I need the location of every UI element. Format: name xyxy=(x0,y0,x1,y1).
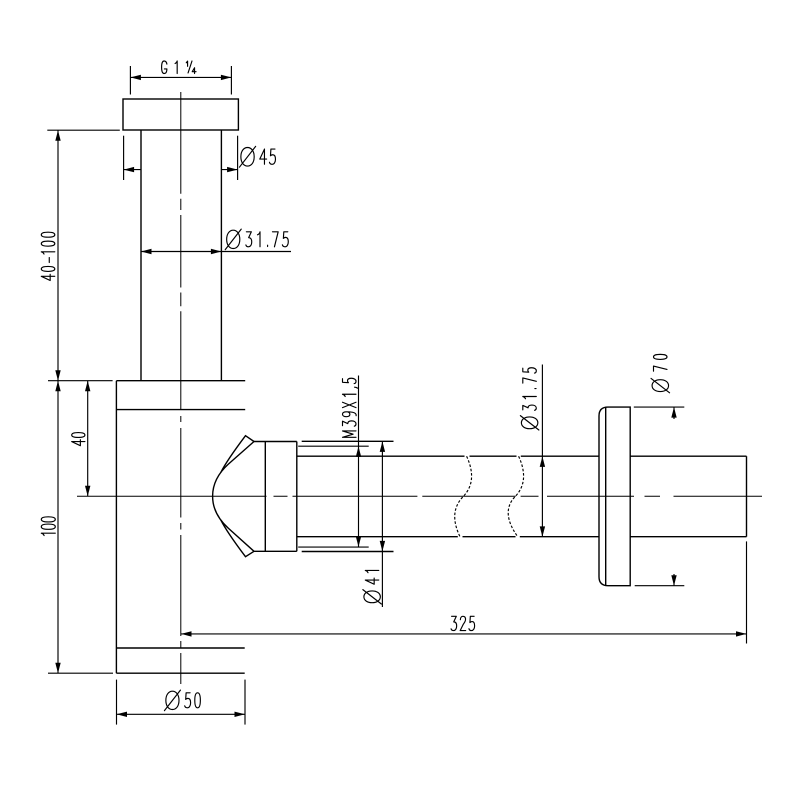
dim 100: label xyxy=(41,517,55,536)
compression nut bottom edge xyxy=(254,550,297,552)
dim D70: arrow stubs xyxy=(673,407,675,419)
dim D31.75 outlet: label xyxy=(520,368,539,430)
vertical center axis of body xyxy=(180,92,182,684)
body top edge xyxy=(116,380,245,382)
dim 325: arrowheads xyxy=(181,631,192,636)
dim 40-100: top tick xyxy=(47,129,120,131)
dim G1 1/4: arrowheads xyxy=(130,75,141,80)
outlet cone xyxy=(213,442,254,552)
escutcheon dome tangent line xyxy=(605,407,607,585)
body top ring line xyxy=(116,409,245,411)
dim D50: extension lines xyxy=(116,680,118,725)
cone top petal xyxy=(221,436,254,473)
dim 100: mid tick xyxy=(48,380,113,382)
dim 325: right extension line xyxy=(746,541,748,643)
dim 40: arrowheads xyxy=(85,381,90,392)
top flange (G thread cap) xyxy=(123,99,238,130)
dim D31.75 inlet: arrowheads xyxy=(141,249,152,254)
dim D45: dimension line stubs xyxy=(124,169,141,171)
dim 40-100: dimension line xyxy=(57,130,59,381)
dim 40: label xyxy=(72,433,85,446)
pipe break squiggle right xyxy=(508,456,523,537)
dim 325: label xyxy=(451,616,475,630)
dim 325: dimension line xyxy=(181,633,747,635)
dim D41: label xyxy=(363,570,382,604)
dim 40: dimension line xyxy=(87,381,89,497)
trap body left wall xyxy=(115,381,117,674)
dim D31.75 inlet: label xyxy=(225,229,288,250)
dim 40-100: arrowheads xyxy=(55,130,60,141)
dim M39x1.5: dimension line xyxy=(358,376,360,547)
dim 100: bottom tick xyxy=(48,672,113,674)
dim D50: arrowheads xyxy=(117,712,128,717)
thread root top xyxy=(298,445,369,447)
compression nut right edge xyxy=(296,442,298,552)
dim D45: extension lines xyxy=(123,136,125,180)
dim D70: bottom extension line xyxy=(635,585,685,587)
dim 100: dimension line xyxy=(57,381,59,674)
dim G1 1/4: dimension line xyxy=(130,76,231,78)
wall flange escutcheon xyxy=(599,407,630,586)
thread crest bottom xyxy=(302,551,394,553)
outlet pipe top wall xyxy=(297,455,464,457)
nut face line xyxy=(264,442,266,552)
thread root bottom xyxy=(298,546,369,548)
pipe end xyxy=(746,456,748,537)
dim D70: top extension line xyxy=(634,406,685,408)
dim D45: label xyxy=(239,146,275,167)
dim 100: arrowheads xyxy=(55,381,60,392)
dim D41: dimension line xyxy=(381,441,383,607)
compression nut top edge xyxy=(254,441,297,443)
dim M39x1.5: arrowheads xyxy=(356,446,361,457)
body bottom edge xyxy=(116,672,244,674)
inlet tube right wall xyxy=(220,130,222,381)
pipe break squiggle left xyxy=(455,456,472,537)
dim M39x1.5: label xyxy=(343,378,358,437)
dim D70: label xyxy=(651,354,670,392)
dim D50: dimension line xyxy=(117,713,246,715)
thread crest top xyxy=(302,440,394,442)
dim D50: label xyxy=(164,690,200,711)
dim D31.75 outlet: dimension line xyxy=(541,365,543,537)
horizontal center axis of outlet pipe xyxy=(77,495,762,497)
dim D31.75 outlet: arrowheads xyxy=(540,456,545,467)
dim D41: arrowheads xyxy=(380,441,385,452)
outlet pipe bottom wall xyxy=(297,536,458,538)
dim D45: arrowheads xyxy=(124,167,135,172)
dim D31.75 inlet: dimension line xyxy=(141,251,291,253)
dim 40-100: label xyxy=(41,232,55,280)
cone bottom petal xyxy=(221,520,254,557)
inlet tube left wall xyxy=(140,130,142,381)
dim G1 1/4: label xyxy=(162,61,196,74)
body bottom ring line xyxy=(116,647,244,649)
dim G1 1/4: extension lines xyxy=(129,66,131,95)
